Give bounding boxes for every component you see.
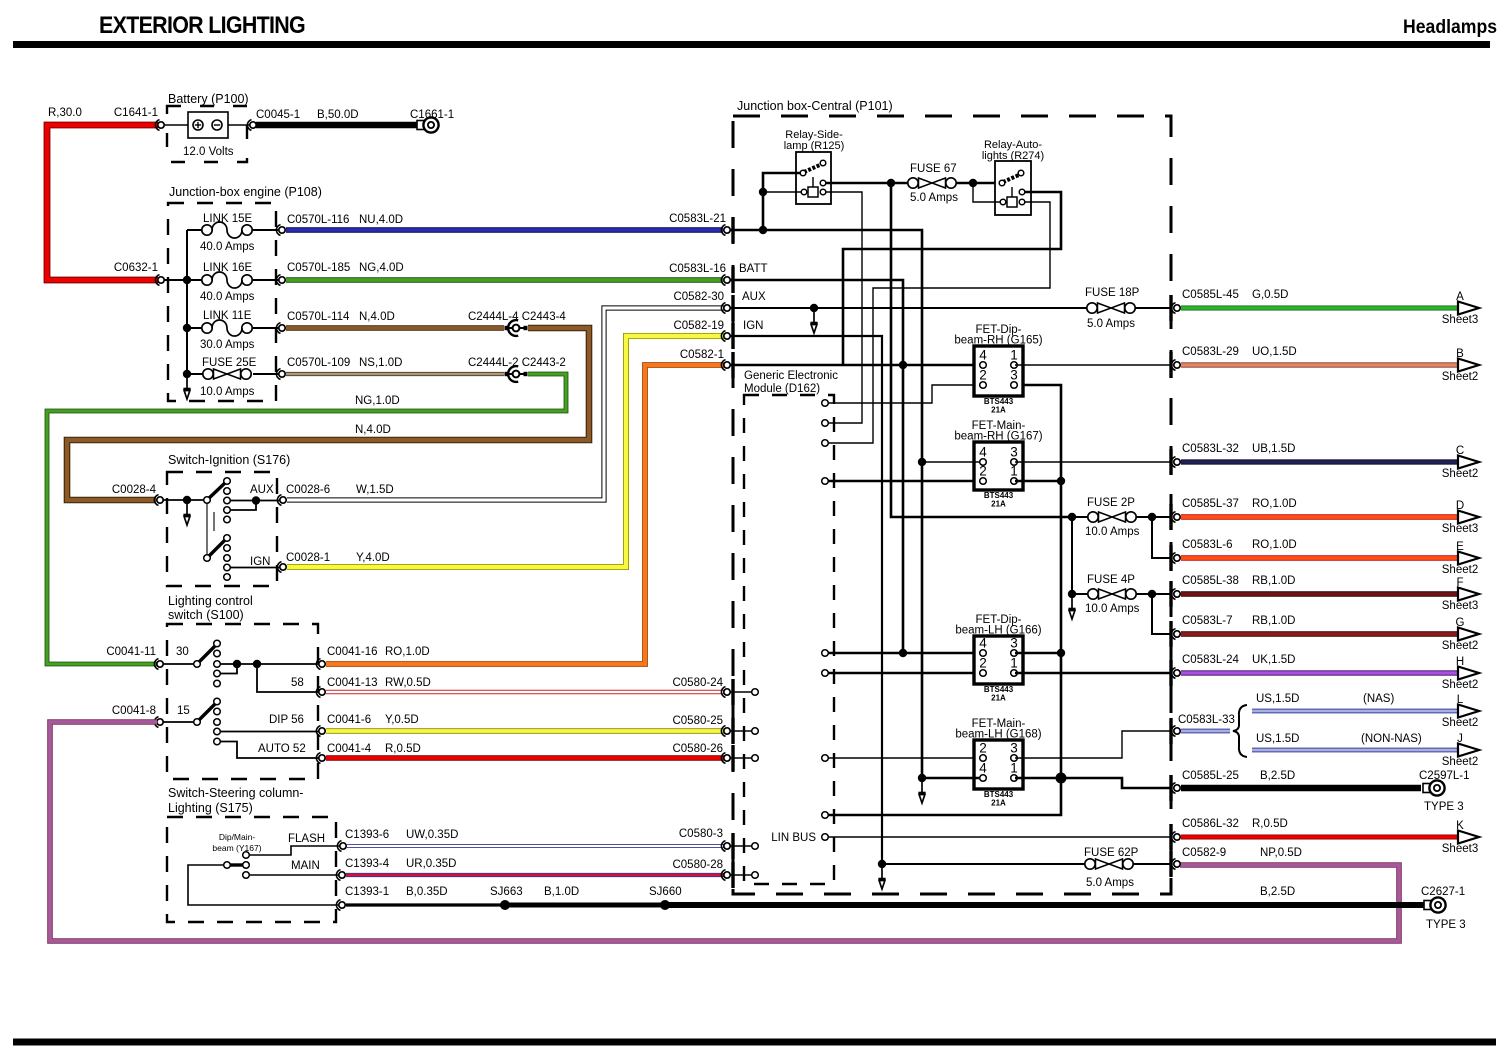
GEM LIN BUS pin wiring [822, 834, 829, 841]
connector C0045-1 [247, 120, 256, 131]
svg-text:15: 15 [177, 705, 190, 717]
main beam switch blade [230, 863, 243, 866]
border bar at C0582-30 [731, 295, 734, 321]
sheet arrow C [1458, 456, 1479, 469]
fuse FUSE 62P [878, 860, 886, 868]
fuse FUSE 2P [1068, 513, 1076, 521]
svg-text:5.0 Amps: 5.0 Amps [1087, 318, 1135, 330]
svg-text:Sheet3: Sheet3 [1442, 523, 1478, 535]
svg-text:C0583L-33: C0583L-33 [1178, 714, 1235, 726]
svg-text:Sheet3: Sheet3 [1442, 314, 1478, 326]
connector C0632-1 [155, 275, 164, 286]
connector C1641-1 [155, 120, 164, 131]
connector C0028-4 [154, 495, 163, 506]
svg-text:N,4.0D: N,4.0D [355, 424, 391, 436]
GEM stub wire [730, 730, 752, 732]
svg-text:Module (D162): Module (D162) [744, 383, 820, 395]
fuse FUSE 18P [1087, 303, 1135, 313]
svg-text:B,0.35D: B,0.35D [406, 886, 448, 898]
svg-text:Switch-Ignition (S176): Switch-Ignition (S176) [168, 453, 290, 467]
svg-text:LINK 16E: LINK 16E [203, 262, 253, 274]
border bar at C0583L-7 [1169, 621, 1172, 647]
svg-text:F: F [1456, 577, 1463, 589]
svg-text:C0041-6: C0041-6 [327, 714, 371, 726]
AUTO 52 wiring [220, 742, 320, 759]
svg-text:Sheet2: Sheet2 [1442, 564, 1478, 576]
R274 coil right to GEM wiring [829, 202, 1050, 443]
svg-text:NP,0.5D: NP,0.5D [1260, 847, 1302, 859]
wire NS,1.0D [286, 372, 504, 376]
svg-text:C1393-1: C1393-1 [345, 886, 389, 898]
wire N,4.0D to C2444L-4 [286, 325, 504, 331]
svg-text:Sheet2: Sheet2 [1442, 468, 1478, 480]
svg-text:1: 1 [1010, 348, 1018, 363]
battery symbol [188, 112, 228, 138]
GEM stub wire [730, 691, 752, 693]
connector C0582-1 [721, 360, 730, 371]
svg-text:FUSE 25E: FUSE 25E [202, 357, 257, 369]
GEM pin wiring to R274 coil [822, 440, 829, 447]
svg-text:C1393-4: C1393-4 [345, 858, 390, 870]
R125 coil left wiring [763, 191, 801, 193]
svg-text:5.0 Amps: 5.0 Amps [1086, 877, 1134, 889]
border bar at C0586L-32 [1169, 824, 1172, 850]
svg-text:B,2.5D: B,2.5D [1260, 886, 1295, 898]
connector C0570L-116 [276, 225, 285, 236]
svg-text:C1641-1: C1641-1 [114, 107, 158, 119]
E output feed [1152, 517, 1172, 558]
wire Y,0.5D yellow [326, 728, 724, 733]
MAIN contact wiring [243, 872, 250, 879]
wire B,0.35D / B,1.0D / B,2.5D ground run [346, 903, 505, 906]
svg-text:Sheet2: Sheet2 [1442, 640, 1478, 652]
svg-text:C0580-26: C0580-26 [672, 743, 723, 755]
svg-text:C0028-4: C0028-4 [112, 484, 157, 496]
svg-text:RB,1.0D: RB,1.0D [1252, 615, 1295, 627]
svg-text:G,0.5D: G,0.5D [1252, 289, 1288, 301]
G166 pin1 to H output [1015, 672, 1172, 675]
ignition switch AUX blade [207, 482, 226, 500]
wire NU,4.0D [286, 227, 723, 233]
R125 contact output wiring [826, 182, 908, 185]
svg-text:UO,1.5D: UO,1.5D [1252, 346, 1297, 358]
border bar at C0585L-45 [1169, 295, 1172, 321]
svg-text:NU,4.0D: NU,4.0D [359, 214, 403, 226]
svg-text:Sheet2: Sheet2 [1442, 679, 1478, 691]
svg-text:EXTERIOR LIGHTING: EXTERIOR LIGHTING [99, 12, 305, 39]
svg-text:TYPE 3: TYPE 3 [1424, 801, 1464, 813]
wire to switch common [163, 499, 204, 501]
connector C0585L-38 [1171, 589, 1180, 600]
svg-text:C0583L-16: C0583L-16 [669, 263, 726, 275]
border bar at C0582-9 [1169, 851, 1172, 877]
wire B,50.0D battery ground [256, 122, 422, 129]
svg-text:C0570L-116: C0570L-116 [287, 214, 349, 226]
svg-text:4: 4 [979, 636, 987, 651]
svg-text:C0041-11: C0041-11 [106, 646, 156, 658]
relay R274 coil [1011, 187, 1013, 197]
svg-text:Y,4.0D: Y,4.0D [356, 552, 390, 564]
svg-text:Sheet2: Sheet2 [1442, 756, 1478, 768]
svg-text:N,4.0D: N,4.0D [359, 311, 395, 323]
svg-text:Generic Electronic: Generic Electronic [744, 370, 838, 382]
AUX feed wiring [730, 307, 1087, 309]
svg-text:Sheet3: Sheet3 [1442, 600, 1478, 612]
svg-text:switch (S100): switch (S100) [168, 608, 244, 622]
svg-text:C0585L-45: C0585L-45 [1182, 289, 1239, 301]
svg-text:TYPE 3: TYPE 3 [1426, 919, 1466, 931]
connector C0582-19 [721, 331, 730, 342]
svg-text:(NAS): (NAS) [1363, 693, 1394, 705]
border bar at C0583L-32 [1169, 449, 1172, 475]
svg-text:C0580-3: C0580-3 [679, 828, 723, 840]
border bar at C0583L-16 [731, 267, 734, 293]
relay R274 blade [1003, 174, 1021, 182]
svg-text:FUSE 2P: FUSE 2P [1087, 497, 1135, 509]
svg-text:10.0 Amps: 10.0 Amps [200, 386, 255, 398]
G167 pin4 feed [922, 461, 980, 463]
svg-text:C0041-16: C0041-16 [327, 646, 378, 658]
svg-text:30.0 Amps: 30.0 Amps [200, 339, 255, 351]
junction node [183, 276, 191, 284]
svg-text:C0028-6: C0028-6 [286, 484, 330, 496]
svg-text:E: E [1456, 541, 1464, 553]
fusible link LINK 16E [253, 279, 280, 281]
wire NG,1.0D to lighting switch [47, 374, 566, 664]
connector C0586L-32 [1171, 832, 1180, 843]
ring terminal C1661-1 [417, 117, 439, 132]
svg-text:C2444L-4 C2443-4: C2444L-4 C2443-4 [468, 311, 566, 323]
top rule [13, 41, 1490, 48]
svg-text:RO,1.0D: RO,1.0D [1252, 498, 1297, 510]
wire P purple from C0041-8 big loop [50, 722, 1399, 941]
svg-text:10.0 Amps: 10.0 Amps [1085, 526, 1140, 538]
connector C0580-28 [721, 870, 730, 881]
GEM pin wiring to output bus [822, 812, 829, 819]
connector C1393-4 [336, 870, 345, 881]
switch-ignition S176 dashed box [167, 472, 277, 586]
wire RW,0.5D red-white [326, 690, 724, 694]
border bar at C0580-24 [731, 679, 734, 705]
fuse FUSE 67 [908, 178, 956, 188]
R125 blade feed wiring [763, 173, 800, 230]
svg-text:C0580-28: C0580-28 [672, 859, 723, 871]
connector C0582-9 [1171, 859, 1180, 870]
svg-text:FUSE 18P: FUSE 18P [1085, 287, 1140, 299]
common wiring to C1393-1 [188, 865, 338, 905]
svg-text:C0583L-32: C0583L-32 [1182, 443, 1239, 455]
border bar at C0583L-29 [1169, 352, 1172, 378]
svg-text:RO,1.0D: RO,1.0D [385, 646, 430, 658]
svg-text:21A: 21A [991, 406, 1006, 415]
svg-text:NG,1.0D: NG,1.0D [355, 395, 400, 407]
svg-text:C0632-1: C0632-1 [114, 262, 158, 274]
svg-text:21A: 21A [991, 694, 1006, 703]
border bar at C0583L-21 [731, 217, 734, 243]
FET G166 [955, 614, 1041, 703]
generic electronic module D162 dashed box [744, 395, 834, 884]
border bar at C0583L-6 [1169, 545, 1172, 571]
GEM pin wiring to R125 coil [822, 420, 829, 427]
splice SJ660 [660, 900, 670, 910]
ignition switch common link [206, 503, 208, 556]
connector C1393-6 [337, 841, 346, 852]
P108 internal bus wire [186, 230, 188, 374]
connector C0583L-6 [1171, 553, 1180, 564]
connector C0585L-45 [1171, 303, 1180, 314]
NU battery feed wiring inside P101 [730, 230, 922, 778]
connector C0580-24 [721, 687, 730, 698]
relay R274 box [995, 161, 1031, 215]
G168 pin1 to B output [1015, 777, 1061, 780]
border bar at C0585L-37 [1169, 504, 1172, 530]
border bar at C0583L-24 [1169, 660, 1172, 686]
connector pair C2444L-2 C2443-2 [505, 366, 528, 382]
IGN feed wiring [730, 336, 882, 864]
R274 coil left wiring [973, 183, 1000, 202]
FUSE 2P to FUSE 4P link [1071, 517, 1073, 594]
wire RB,1.0D to F [1181, 591, 1458, 597]
switch S175 dashed box [167, 817, 336, 922]
svg-text:3: 3 [1010, 741, 1018, 756]
connector C0570L-109 [276, 369, 285, 380]
svg-text:BATT: BATT [739, 263, 768, 275]
svg-text:C1661-1: C1661-1 [410, 109, 454, 121]
connector C0583L-7 [1171, 629, 1180, 640]
svg-text:C: C [1456, 445, 1464, 457]
svg-text:Switch-Steering column-: Switch-Steering column- [168, 786, 303, 800]
svg-text:Sheet3: Sheet3 [1442, 843, 1478, 855]
R125 coil right to GEM wiring [826, 192, 862, 423]
connector C0583L-32 [1171, 457, 1180, 468]
connector C0041-11 [154, 659, 163, 670]
svg-text:3: 3 [1010, 445, 1018, 460]
svg-text:C1393-6: C1393-6 [345, 829, 389, 841]
continuation arrow [183, 376, 190, 399]
svg-text:C0585L-38: C0585L-38 [1182, 575, 1239, 587]
svg-text:2: 2 [979, 656, 987, 671]
wire RO,1.0D to D [1181, 514, 1458, 520]
battery P100 dashed box [167, 106, 247, 162]
wire UR,0.35D [346, 873, 724, 877]
svg-text:AUTO 52: AUTO 52 [258, 743, 306, 755]
svg-text:Dip/Main-: Dip/Main- [219, 832, 256, 842]
connector C0570L-114 [276, 323, 285, 334]
svg-text:DIP 56: DIP 56 [269, 714, 304, 726]
GEM pin wiring to G166 pin4 [822, 650, 829, 657]
svg-text:US,1.5D: US,1.5D [1256, 733, 1299, 745]
junction-box engine P108 dashed box [168, 203, 276, 401]
svg-text:C0585L-37: C0585L-37 [1182, 498, 1239, 510]
svg-text:R,0.5D: R,0.5D [1252, 818, 1288, 830]
connector C0028-6 [277, 495, 286, 506]
svg-text:B,1.0D: B,1.0D [544, 886, 579, 898]
border bar at C0580-26 [731, 745, 734, 771]
svg-text:J: J [1457, 733, 1463, 745]
wire Y,4.0D yellow [287, 336, 724, 567]
GEM stub wire [730, 757, 752, 759]
svg-text:SJ660: SJ660 [649, 886, 682, 898]
svg-text:40.0 Amps: 40.0 Amps [200, 291, 255, 303]
svg-text:30: 30 [176, 646, 189, 658]
wire RO,1.0D to E [1181, 555, 1458, 561]
junction node [183, 496, 191, 504]
svg-text:C0583L-21: C0583L-21 [669, 213, 726, 225]
svg-text:AUX: AUX [250, 484, 274, 496]
svg-text:Y,0.5D: Y,0.5D [385, 714, 419, 726]
svg-text:IGN: IGN [250, 556, 270, 568]
FET G168 [955, 718, 1041, 808]
svg-text:21A: 21A [991, 799, 1006, 808]
svg-text:LINK 15E: LINK 15E [203, 213, 253, 225]
AUX contact wiring [230, 500, 281, 502]
junction box central P101 dashed box [733, 116, 1171, 894]
connector C0583L-29 [1171, 360, 1180, 371]
connector C0583L-16 [721, 275, 730, 286]
svg-text:G: G [1456, 617, 1465, 629]
svg-text:C2627-1: C2627-1 [1421, 886, 1465, 898]
wire G,0.5D to A [1181, 306, 1458, 311]
continuation arrow [183, 502, 190, 525]
svg-text:4: 4 [979, 445, 987, 460]
svg-text:C0045-1: C0045-1 [256, 109, 300, 121]
svg-text:C0583L-7: C0583L-7 [1182, 615, 1233, 627]
svg-text:Junction box-Central (P101): Junction box-Central (P101) [737, 99, 893, 113]
connector C0583L-33 [1171, 726, 1180, 737]
svg-text:K: K [1456, 820, 1464, 832]
wire RO,1.0D orange [326, 365, 724, 664]
svg-text:C0041-8: C0041-8 [112, 705, 156, 717]
svg-text:LINK 11E: LINK 11E [203, 310, 252, 322]
svg-text:SJ663: SJ663 [490, 886, 523, 898]
svg-text:H: H [1456, 656, 1464, 668]
connector C1393-1 [336, 900, 345, 911]
G167 pin1 to bus [1015, 480, 1061, 483]
svg-text:C0041-4: C0041-4 [327, 743, 372, 755]
IGN contact wiring [230, 567, 281, 569]
switch 58 wiring [257, 664, 320, 692]
svg-text:Lighting (S175): Lighting (S175) [168, 801, 253, 815]
svg-text:LIN BUS: LIN BUS [771, 832, 816, 844]
GEM pin wiring to G166 pin2 [822, 670, 829, 677]
G168 pin4 feed [922, 777, 980, 780]
svg-text:US,1.5D: US,1.5D [1256, 693, 1299, 705]
svg-text:12.0 Volts: 12.0 Volts [183, 146, 234, 158]
svg-text:C0583L-29: C0583L-29 [1182, 346, 1239, 358]
FET G165 [954, 324, 1042, 415]
svg-text:MAIN: MAIN [291, 860, 320, 872]
svg-text:D: D [1456, 500, 1464, 512]
wire R,30.0 red battery feed [47, 125, 158, 280]
sheet arrow E [1458, 552, 1479, 565]
svg-text:UB,1.5D: UB,1.5D [1252, 443, 1295, 455]
GEM stub wire [730, 845, 752, 847]
svg-text:lamp (R125): lamp (R125) [784, 140, 845, 152]
fuse FUSE 4P [1068, 590, 1076, 598]
svg-text:IGN: IGN [743, 320, 763, 332]
connector pair C2444L-4 C2443-4 [505, 320, 528, 336]
svg-text:C0580-24: C0580-24 [672, 677, 723, 689]
G166 pin3 to bus [1015, 652, 1061, 655]
svg-text:C0582-19: C0582-19 [673, 320, 724, 332]
svg-text:C0583L-24: C0583L-24 [1182, 654, 1240, 666]
fuse FUSE 25E [187, 373, 203, 375]
svg-text:C0028-1: C0028-1 [286, 552, 330, 564]
brace for US split [1233, 705, 1247, 757]
junction node [183, 324, 191, 332]
svg-text:(NON-NAS): (NON-NAS) [1361, 733, 1422, 745]
svg-text:C0586L-32: C0586L-32 [1182, 818, 1239, 830]
svg-text:UW,0.35D: UW,0.35D [406, 829, 458, 841]
svg-text:C0583L-6: C0583L-6 [1182, 539, 1233, 551]
svg-text:B,50.0D: B,50.0D [317, 109, 359, 121]
svg-text:FLASH: FLASH [288, 833, 325, 845]
svg-text:RW,0.5D: RW,0.5D [385, 677, 431, 689]
splice SJ663 [500, 900, 510, 910]
svg-text:C0570L-185: C0570L-185 [287, 262, 350, 274]
svg-text:C0582-1: C0582-1 [680, 349, 724, 361]
svg-text:3: 3 [1010, 636, 1018, 651]
svg-text:1: 1 [1010, 656, 1018, 671]
svg-text:FUSE 4P: FUSE 4P [1087, 574, 1135, 586]
svg-text:Lighting control: Lighting control [168, 594, 253, 608]
svg-text:3: 3 [1010, 368, 1018, 383]
junction node [183, 370, 191, 378]
svg-text:C0582-30: C0582-30 [673, 291, 724, 303]
G output feed [1152, 594, 1172, 634]
svg-text:C0041-13: C0041-13 [327, 677, 378, 689]
connector C0041-4 [316, 753, 325, 764]
connector C0585L-37 [1171, 512, 1180, 523]
svg-text:FUSE 67: FUSE 67 [910, 163, 957, 175]
svg-text:R,0.5D: R,0.5D [385, 743, 421, 755]
svg-text:Junction-box engine (P108): Junction-box engine (P108) [169, 185, 322, 199]
GEM pin wiring to G165 pin2 [822, 400, 829, 407]
GEM pin wiring to G168 pin2 [822, 755, 829, 762]
svg-text:58: 58 [291, 677, 304, 689]
bottom rule [13, 1039, 1496, 1046]
svg-text:FUSE 62P: FUSE 62P [1084, 847, 1139, 859]
svg-text:10.0 Amps: 10.0 Amps [1085, 603, 1140, 615]
sheet arrow A [1458, 302, 1479, 315]
G165 pin1 to B output [1015, 364, 1172, 366]
border bar at C0580-25 [731, 718, 734, 744]
svg-text:40.0 Amps: 40.0 Amps [200, 241, 255, 253]
connector C0041-8 [154, 717, 163, 728]
fusible link LINK 11E [187, 327, 203, 329]
svg-text:Headlamps: Headlamps [1403, 17, 1497, 38]
svg-text:Sheet2: Sheet2 [1442, 717, 1478, 729]
svg-text:5.0 Amps: 5.0 Amps [910, 192, 958, 204]
wire UO,1.5D to B [1181, 362, 1458, 367]
ignition switch IGN blade [207, 539, 226, 558]
svg-text:C2444L-2 C2443-2: C2444L-2 C2443-2 [468, 357, 566, 369]
svg-text:C0570L-114: C0570L-114 [287, 311, 350, 323]
svg-text:C0582-9: C0582-9 [1182, 847, 1226, 859]
wire W,1.5D white [287, 308, 724, 500]
svg-text:R,30.0: R,30.0 [48, 107, 82, 119]
fusible link LINK 15E [187, 229, 203, 231]
sheet arrow B [1458, 359, 1479, 372]
wire R,0.5D to K [1181, 835, 1458, 840]
connector C0580-25 [721, 726, 730, 737]
svg-text:21A: 21A [991, 500, 1006, 509]
connector C0583L-24 [1171, 668, 1180, 679]
sheet arrow G [1458, 628, 1479, 641]
wire N,4.0D continues to ignition switch [67, 328, 589, 500]
svg-text:UR,0.35D: UR,0.35D [406, 858, 457, 870]
svg-text:B: B [1456, 348, 1464, 360]
